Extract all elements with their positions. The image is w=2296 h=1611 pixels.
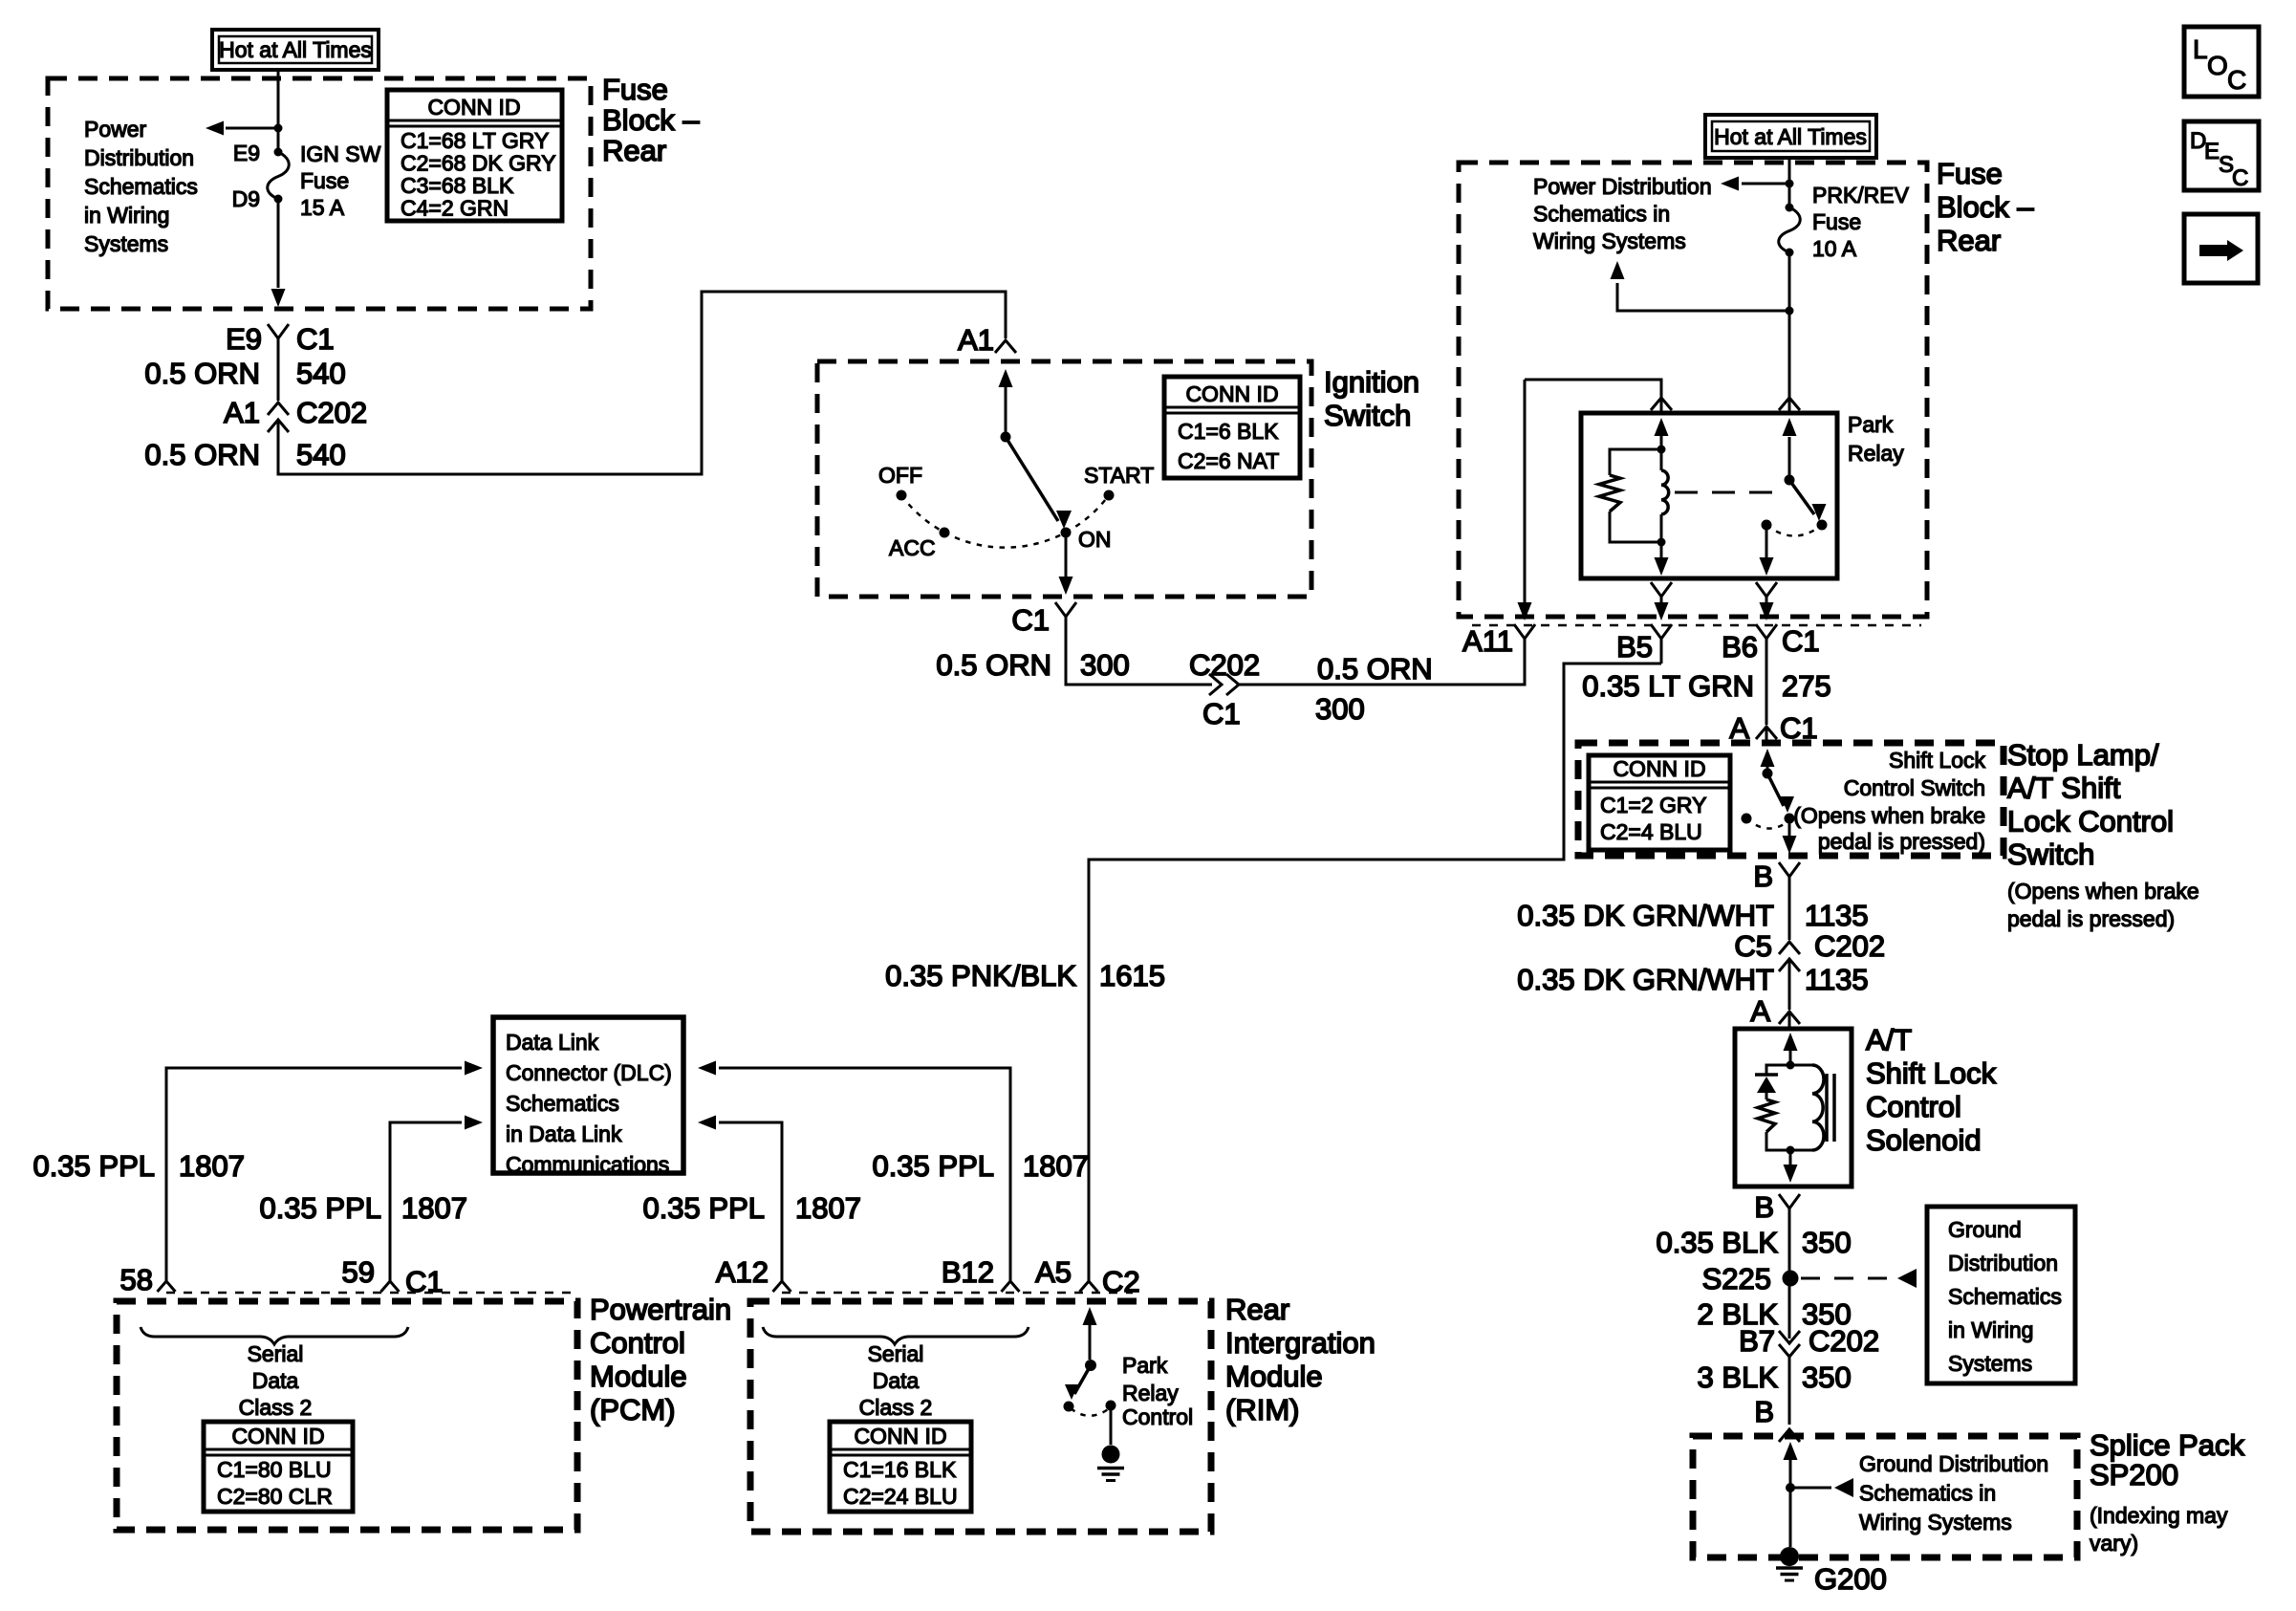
svg-text:L: L <box>2193 34 2208 64</box>
svg-text:Class 2: Class 2 <box>239 1395 313 1420</box>
svg-text:Powertrain: Powertrain <box>590 1293 731 1326</box>
svg-text:0.35 LT GRN: 0.35 LT GRN <box>1582 669 1754 703</box>
wire: park relay control to ground <box>1110 1405 1113 1445</box>
park relay control switch arm <box>1074 1365 1091 1394</box>
node: stop lamp switch pivot <box>1763 769 1773 779</box>
icon: next-page arrow box <box>2184 214 2258 283</box>
power label box: Hot at All Times (left) <box>212 30 379 70</box>
svg-text:Systems: Systems <box>84 231 168 256</box>
connector fork B (solenoid) <box>1779 1194 1800 1208</box>
svg-text:Rear: Rear <box>602 134 666 167</box>
svg-text:C4=2 GRN: C4=2 GRN <box>401 196 509 221</box>
arrow: reference to ground distribution <box>1897 1269 1917 1288</box>
connector chevron A/C1 (stop lamp switch) <box>1756 727 1777 739</box>
dashed arc: park relay control throw <box>1071 1407 1111 1416</box>
dashed reference link from S225 <box>1801 1277 1893 1280</box>
solenoid clamp diode and resistor <box>1766 1065 1790 1075</box>
wire: circuit 1135 to solenoid <box>1788 959 1791 1010</box>
svg-text:A5: A5 <box>1035 1255 1072 1289</box>
node: park relay control pivot <box>1085 1360 1096 1371</box>
ground distribution reference box <box>1927 1207 2075 1383</box>
wire: relay common feed with arrow <box>1788 437 1791 480</box>
svg-text:PRK/REV: PRK/REV <box>1812 183 1910 207</box>
svg-text:Schematics: Schematics <box>506 1091 619 1116</box>
wire: splice pack feed arrow up <box>1789 1457 1792 1488</box>
data link connector reference box <box>493 1017 683 1173</box>
svg-text:0.5 ORN: 0.5 ORN <box>1317 652 1433 686</box>
wire: branch with up arrow to reference text <box>1617 283 1789 311</box>
contact dot: park relay control right <box>1106 1401 1116 1411</box>
svg-text:B: B <box>1753 860 1773 893</box>
arrow: wire exits left fuse block <box>271 289 286 307</box>
svg-text:C1=6 BLK: C1=6 BLK <box>1178 419 1279 444</box>
wire: into stop lamp switch <box>1765 727 1768 745</box>
svg-text:A12: A12 <box>716 1255 769 1289</box>
svg-text:CONN ID: CONN ID <box>1613 756 1705 781</box>
svg-text:A11: A11 <box>1462 624 1513 658</box>
svg-text:Switch: Switch <box>1324 399 1411 432</box>
wire: coil bottom exit with arrow <box>1660 542 1663 564</box>
connector row dashed line (PCM) <box>166 1292 574 1295</box>
wire: serial data 59 to DLC <box>390 1122 462 1281</box>
svg-text:15 A: 15 A <box>300 195 345 220</box>
svg-text:0.35 PPL: 0.35 PPL <box>259 1191 381 1225</box>
icon: LOC box <box>2184 27 2259 97</box>
svg-text:Schematics in: Schematics in <box>1859 1481 1996 1506</box>
svg-text:(Indexing may: (Indexing may <box>2090 1503 2228 1528</box>
svg-text:C1: C1 <box>1202 697 1241 730</box>
svg-text:Intergration: Intergration <box>1225 1326 1375 1360</box>
svg-text:Stop Lamp/: Stop Lamp/ <box>2007 738 2159 772</box>
arrow: reference to ground distribution schematics <box>1834 1478 1853 1497</box>
svg-text:E: E <box>2204 139 2220 164</box>
svg-text:1807: 1807 <box>1023 1149 1089 1183</box>
svg-text:C2=80 CLR: C2=80 CLR <box>217 1484 333 1509</box>
contact dot: park relay control arm tip <box>1064 1402 1074 1412</box>
svg-text:Communications: Communications <box>506 1152 669 1177</box>
svg-text:Data Link: Data Link <box>506 1030 599 1055</box>
svg-text:0.5 ORN: 0.5 ORN <box>936 648 1051 682</box>
svg-text:vary): vary) <box>2090 1531 2138 1556</box>
relay coil winding <box>1661 470 1669 514</box>
connector C1 fork below left fuse block <box>268 324 289 338</box>
svg-text:350: 350 <box>1802 1226 1852 1259</box>
node: relay switch pivot <box>1785 475 1795 486</box>
connector id table (RIM) <box>830 1422 971 1512</box>
wire: serial data 58 to DLC <box>166 1068 462 1281</box>
connector chevron pin B12 <box>1002 1281 1020 1292</box>
svg-text:Relay: Relay <box>1848 441 1904 466</box>
svg-text:Rear: Rear <box>1937 224 2001 257</box>
svg-text:(Opens when brake: (Opens when brake <box>1793 803 1985 828</box>
svg-text:Schematics: Schematics <box>1948 1284 2062 1309</box>
svg-text:Module: Module <box>1225 1360 1323 1393</box>
svg-text:O: O <box>2207 51 2228 80</box>
connector chevron pin A5 <box>1080 1281 1098 1292</box>
svg-text:OFF: OFF <box>878 463 922 488</box>
node: ignition switch pivot <box>1001 432 1011 443</box>
svg-text:C2: C2 <box>1102 1265 1140 1298</box>
connector fork below relay pin 85 <box>1651 582 1672 597</box>
node: G200 ground splice <box>1780 1547 1799 1566</box>
wire: branch to ground distribution reference <box>1790 1487 1831 1490</box>
contact dot: stop lamp switch arm tip <box>1785 814 1795 824</box>
svg-text:Rear: Rear <box>1225 1293 1289 1326</box>
svg-text:C202: C202 <box>1189 648 1260 682</box>
svg-text:Schematics in: Schematics in <box>1533 202 1670 227</box>
svg-text:SP200: SP200 <box>2090 1458 2178 1491</box>
contact dot OFF <box>897 490 907 501</box>
svg-text:Fuse: Fuse <box>602 73 668 106</box>
svg-text:Control: Control <box>1122 1404 1193 1429</box>
splice node S225 <box>1783 1271 1799 1287</box>
wire: circuit 300 C202 to fuse block A11 <box>1239 639 1525 685</box>
wire: park relay control feed arrow up <box>1089 1321 1092 1360</box>
svg-text:G200: G200 <box>1814 1562 1887 1596</box>
arrow: relay pin 85 wire exits fuse block <box>1660 605 1663 613</box>
relay coil branch arrow (up) <box>1660 429 1663 449</box>
wire: into solenoid box <box>1788 1012 1791 1028</box>
svg-text:B7: B7 <box>1739 1324 1775 1358</box>
svg-text:0.35 PNK/BLK: 0.35 PNK/BLK <box>885 959 1076 992</box>
svg-text:C1: C1 <box>1782 624 1820 658</box>
svg-text:59: 59 <box>342 1255 375 1289</box>
svg-text:C3=68 BLK: C3=68 BLK <box>401 173 514 198</box>
svg-text:Module: Module <box>590 1360 687 1393</box>
contact dot: relay arm tip <box>1817 520 1828 531</box>
dashed arc: stop lamp switch throw <box>1746 818 1789 829</box>
svg-text:Solenoid: Solenoid <box>1866 1123 1982 1157</box>
svg-text:Hot at All Times: Hot at All Times <box>1714 124 1867 149</box>
svg-text:in Wiring: in Wiring <box>1948 1317 2033 1342</box>
svg-text:Splice Pack: Splice Pack <box>2090 1428 2244 1462</box>
svg-text:S225: S225 <box>1702 1262 1771 1295</box>
wire: circuit 350 to C202 B7 <box>1788 1278 1791 1339</box>
wire: serial data B12 to DLC <box>719 1068 1010 1281</box>
svg-text:C202: C202 <box>1809 1324 1879 1358</box>
connector chevron A (solenoid) <box>1779 1012 1800 1024</box>
svg-text:300: 300 <box>1315 692 1365 726</box>
svg-text:B12: B12 <box>942 1255 994 1289</box>
svg-text:350: 350 <box>1802 1361 1852 1394</box>
svg-text:Ground: Ground <box>1948 1217 2022 1242</box>
connector chevron B (splice pack) <box>1779 1429 1800 1442</box>
svg-text:0.5 ORN: 0.5 ORN <box>144 438 260 471</box>
svg-text:Fuse: Fuse <box>300 168 349 193</box>
solenoid box <box>1735 1029 1852 1186</box>
svg-text:pedal is pressed): pedal is pressed) <box>2007 906 2175 931</box>
svg-text:0.35 DK GRN/WHT: 0.35 DK GRN/WHT <box>1517 963 1774 996</box>
svg-text:E9: E9 <box>226 322 262 356</box>
wire: serial data A12 to DLC <box>719 1122 782 1281</box>
arrow: wire exits ignition switch <box>1059 577 1073 595</box>
connector C202 double chevron (C5) <box>1779 942 1800 954</box>
svg-text:1807: 1807 <box>795 1191 861 1225</box>
svg-text:ACC: ACC <box>889 535 936 560</box>
connector fork B6 <box>1756 624 1777 639</box>
ground symbol G200 <box>1776 1566 1803 1570</box>
svg-text:Wiring Systems: Wiring Systems <box>1533 229 1686 253</box>
svg-text:1135: 1135 <box>1805 963 1869 996</box>
svg-text:Park: Park <box>1122 1353 1168 1378</box>
connector fork below relay pin 87 <box>1756 582 1777 597</box>
svg-text:3 BLK: 3 BLK <box>1698 1361 1779 1394</box>
svg-text:C5: C5 <box>1734 929 1772 963</box>
wire: into splice pack <box>1788 1429 1791 1436</box>
wire: switch feed arrow up <box>1766 763 1769 773</box>
contact dot START <box>1104 490 1115 501</box>
wire: hot feed into left fuse block <box>277 70 280 128</box>
wire: coil top to winding <box>1660 449 1663 470</box>
arrow: A11 wire exits fuse block <box>1518 602 1532 620</box>
connector row dashed line (RIM) <box>782 1292 1133 1295</box>
svg-text:pedal is pressed): pedal is pressed) <box>1818 829 1985 854</box>
svg-text:Distribution: Distribution <box>84 145 194 170</box>
svg-text:Power: Power <box>84 117 147 142</box>
svg-text:300: 300 <box>1080 648 1130 682</box>
connector C202 double chevron (B7) <box>1779 1331 1800 1343</box>
svg-text:A/T: A/T <box>1866 1023 1912 1056</box>
svg-text:C2=68 DK GRY: C2=68 DK GRY <box>401 151 556 176</box>
node: junction at left fuse block feed <box>274 124 283 133</box>
connector chevron at park relay pin 30 <box>1779 398 1800 410</box>
node: relay coil top <box>1657 446 1666 454</box>
ignition switch dashed outline <box>817 361 1311 597</box>
wire: circuit 300 to connector C202 <box>1066 617 1212 685</box>
svg-text:Fuse: Fuse <box>1812 209 1861 234</box>
svg-text:0.35 DK GRN/WHT: 0.35 DK GRN/WHT <box>1517 899 1774 932</box>
svg-text:Wiring Systems: Wiring Systems <box>1859 1510 2012 1535</box>
svg-text:Control Switch: Control Switch <box>1844 775 1985 800</box>
fuse block rear (left) dashed outline <box>48 78 591 309</box>
solenoid core bars <box>1825 1074 1829 1142</box>
svg-text:C202: C202 <box>1814 929 1885 963</box>
svg-text:Block –: Block – <box>602 103 700 137</box>
contact dot ON <box>1061 528 1072 538</box>
connector C1 fork below ignition switch <box>1055 602 1076 617</box>
node: splice pack junction <box>1786 1483 1795 1492</box>
wire: junction to fuse PRK/REV <box>1788 184 1791 207</box>
svg-text:0.35 PPL: 0.35 PPL <box>32 1149 155 1183</box>
svg-text:CONN ID: CONN ID <box>1185 381 1278 406</box>
svg-text:Data: Data <box>873 1368 920 1393</box>
svg-text:E9: E9 <box>233 141 260 165</box>
svg-text:in Data Link: in Data Link <box>506 1121 622 1146</box>
wire: junction to fuse E9 <box>277 128 280 152</box>
wire: switch output down <box>1788 820 1791 839</box>
svg-text:0.35 PPL: 0.35 PPL <box>872 1149 994 1183</box>
svg-text:Block –: Block – <box>1937 190 2034 224</box>
wire: relay coil pin feed <box>1525 380 1661 411</box>
connector C202 double chevron (A1) <box>268 403 289 415</box>
svg-text:A1: A1 <box>958 323 994 357</box>
wire: relay NC contact down with arrow <box>1765 525 1768 564</box>
park relay box <box>1581 413 1837 578</box>
svg-text:B5: B5 <box>1616 630 1653 664</box>
icon: DESC box <box>2184 121 2259 190</box>
solenoid coil winding <box>1790 1064 1812 1067</box>
svg-text:Ignition: Ignition <box>1324 365 1419 399</box>
svg-text:C1=80 BLU: C1=80 BLU <box>217 1457 332 1482</box>
rear integration module dashed outline <box>750 1301 1211 1532</box>
svg-text:C1: C1 <box>1011 603 1050 637</box>
connector chevron pin 58 <box>158 1281 176 1292</box>
connector fork B5 <box>1651 624 1672 639</box>
svg-text:C2=6 NAT: C2=6 NAT <box>1178 448 1279 473</box>
svg-text:C1=2 GRY: C1=2 GRY <box>1600 793 1706 817</box>
svg-text:C1=16 BLK: C1=16 BLK <box>843 1457 957 1482</box>
svg-text:Control: Control <box>590 1326 685 1360</box>
svg-text:START: START <box>1084 463 1154 488</box>
svg-text:275: 275 <box>1782 669 1831 703</box>
svg-text:C202: C202 <box>296 396 367 429</box>
ground symbol (RIM) <box>1097 1467 1124 1470</box>
svg-text:Distribution: Distribution <box>1948 1251 2058 1275</box>
wire: solenoid feed arrow up <box>1789 1046 1792 1065</box>
svg-text:0.35 BLK: 0.35 BLK <box>1656 1226 1778 1259</box>
svg-text:C1=68 LT GRY: C1=68 LT GRY <box>401 128 549 153</box>
svg-text:Class 2: Class 2 <box>859 1395 933 1420</box>
fuse IGN SW Fuse 15 A <box>274 148 283 157</box>
node: relay coil bottom <box>1657 538 1666 547</box>
contact dot ACC <box>940 528 950 538</box>
svg-text:Power Distribution: Power Distribution <box>1533 174 1712 199</box>
svg-text:Control: Control <box>1866 1090 1961 1123</box>
connector id table (PCM) <box>204 1422 353 1512</box>
brace: RIM serial data pins <box>763 1327 1029 1344</box>
svg-text:C: C <box>2232 165 2248 191</box>
node: junction at right fuse block feed <box>1786 180 1794 188</box>
svg-text:Shift Lock: Shift Lock <box>1889 748 1985 773</box>
node: solenoid top <box>1787 1061 1795 1070</box>
node: solenoid bottom <box>1787 1146 1795 1155</box>
svg-text:C: C <box>2227 65 2246 95</box>
connector id table (ignition switch) <box>1164 377 1300 478</box>
svg-text:Hot at All Times: Hot at All Times <box>219 37 372 62</box>
svg-text:Data: Data <box>252 1368 299 1393</box>
wire: circuit 350 to splice S225 <box>1788 1221 1791 1278</box>
relay switch arm <box>1789 480 1814 514</box>
svg-text:Relay: Relay <box>1122 1381 1179 1405</box>
connector row dashed line (right fuse block) <box>1472 624 1921 627</box>
wire: circuit 1135 to C202 <box>1788 887 1791 940</box>
svg-text:B6: B6 <box>1722 630 1758 664</box>
svg-text:Shift Lock: Shift Lock <box>1866 1056 1997 1090</box>
connector fork B (stop lamp switch) <box>1779 862 1800 877</box>
svg-text:B: B <box>1754 1395 1774 1428</box>
node: junction to wiring systems arrow <box>1786 307 1794 316</box>
svg-text:Schematics: Schematics <box>84 174 198 199</box>
svg-text:CONN ID: CONN ID <box>427 95 520 120</box>
svg-text:Systems: Systems <box>1948 1351 2032 1376</box>
svg-text:A/T Shift: A/T Shift <box>2007 772 2121 805</box>
svg-text:Park: Park <box>1848 412 1894 437</box>
wire: A11 feed down fuse block <box>1524 380 1527 612</box>
switch arm: pivot to ON <box>1006 437 1058 521</box>
svg-text:Serial: Serial <box>868 1341 924 1366</box>
brace: PCM serial data pins <box>141 1327 408 1344</box>
svg-text:in Wiring: in Wiring <box>84 203 169 228</box>
connector chevron pin 59 <box>381 1281 400 1292</box>
svg-text:C2=24 BLU: C2=24 BLU <box>843 1484 958 1509</box>
relay suppression resistor <box>1610 449 1661 475</box>
svg-text:1807: 1807 <box>401 1191 467 1225</box>
svg-text:Connector (DLC): Connector (DLC) <box>506 1060 672 1085</box>
wire: solenoid exit with arrow <box>1789 1150 1792 1174</box>
svg-text:58: 58 <box>120 1263 153 1296</box>
connector C202 inline chevrons on 300 wire <box>1209 674 1222 695</box>
connector fork A11 <box>1514 624 1535 639</box>
wire: fuse to lower junction <box>1788 252 1791 311</box>
connector chevron pin A12 <box>773 1281 791 1292</box>
svg-text:(RIM): (RIM) <box>1225 1393 1299 1426</box>
arrow: relay pin 87 wire exits fuse block <box>1765 605 1768 613</box>
dashed arc of ignition switch positions <box>901 495 1109 548</box>
connector chevron A1 at ignition switch <box>995 340 1016 353</box>
contact dot: stop lamp switch open contact <box>1742 814 1752 824</box>
svg-text:Ground Distribution: Ground Distribution <box>1859 1451 2048 1476</box>
powertrain control module dashed outline <box>117 1301 577 1530</box>
svg-text:Serial: Serial <box>248 1341 304 1366</box>
wire: B5 run to rear integration module <box>1089 664 1661 1281</box>
svg-text:ON: ON <box>1078 527 1112 552</box>
svg-text:A: A <box>1750 994 1770 1028</box>
svg-text:0.5 ORN: 0.5 ORN <box>144 357 260 390</box>
wire: junction to ground G200 <box>1789 1488 1792 1547</box>
contact dot: relay NC contact <box>1762 520 1772 531</box>
stop lamp switch arm <box>1767 773 1784 806</box>
splice pack SP200 dashed outline <box>1693 1436 2077 1557</box>
wire: branch to power distribution reference (right) <box>1742 183 1789 185</box>
svg-text:CONN ID: CONN ID <box>854 1424 946 1448</box>
svg-text:Fuse: Fuse <box>1937 157 2003 190</box>
svg-text:CONN ID: CONN ID <box>231 1424 324 1448</box>
power label box: Hot at All Times (right) <box>1705 115 1876 158</box>
svg-text:Switch: Switch <box>2007 838 2094 871</box>
svg-text:0.35 PPL: 0.35 PPL <box>642 1191 765 1225</box>
svg-text:1135: 1135 <box>1805 899 1869 932</box>
wire: ignition feed with arrow <box>1005 384 1007 437</box>
wire: ON contact to switch exit <box>1065 533 1068 577</box>
arrow: to power distribution schematics (left) <box>206 121 224 136</box>
svg-text:B: B <box>1754 1190 1774 1224</box>
fuse block rear (right) dashed outline <box>1459 163 1927 617</box>
wire: main feed down to park relay <box>1788 311 1791 411</box>
svg-text:Lock Control: Lock Control <box>2007 804 2174 838</box>
dashed arc: relay contact throw <box>1766 525 1822 536</box>
arrow: wire exits stop lamp switch <box>1783 836 1797 854</box>
stop lamp switch dashed outline <box>1578 743 2004 856</box>
svg-text:C1: C1 <box>296 322 335 356</box>
fuse PRK/REV Fuse 10 A <box>1786 204 1794 212</box>
wire: fuse output 540 to C202 <box>277 338 280 401</box>
svg-text:C2=4 BLU: C2=4 BLU <box>1600 819 1702 844</box>
svg-text:10 A: 10 A <box>1812 236 1857 261</box>
svg-text:540: 540 <box>296 357 346 390</box>
wire: hot feed into right fuse block <box>1788 158 1791 184</box>
wire: winding to coil bottom node <box>1660 514 1663 542</box>
svg-text:(PCM): (PCM) <box>590 1393 676 1426</box>
connector id table (left fuse block) <box>387 90 562 221</box>
wire: B6 circuit 275 down <box>1765 650 1768 725</box>
svg-text:(Opens when brake: (Opens when brake <box>2007 879 2199 903</box>
svg-text:1615: 1615 <box>1099 959 1165 992</box>
svg-text:540: 540 <box>296 438 346 471</box>
connector chevron at park relay pin 86 <box>1651 398 1672 410</box>
wire: 540 run to ignition switch <box>278 292 1006 474</box>
wire: fuse D9 to block exit <box>277 199 280 288</box>
svg-text:IGN SW: IGN SW <box>300 142 381 166</box>
